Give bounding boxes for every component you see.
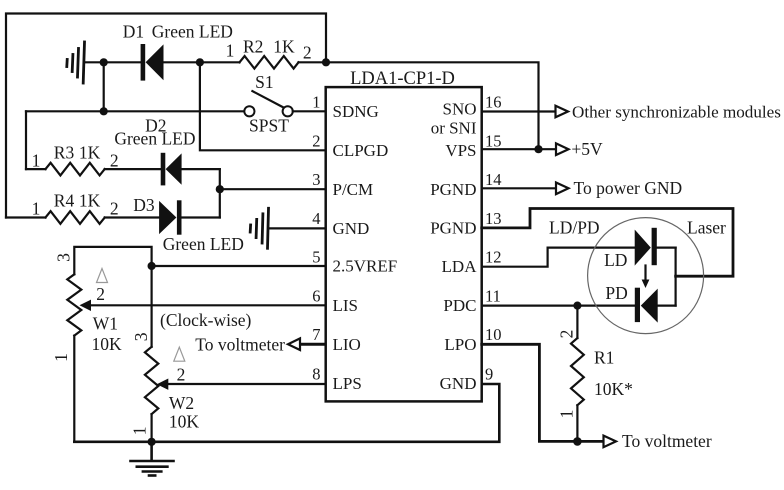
svg-text:GND: GND bbox=[440, 374, 477, 393]
node G (pot ground junction) bbox=[148, 438, 156, 446]
LIO arrow (to voltmeter, pin 7) bbox=[299, 343, 326, 346]
wire W2 wiper to pin 8 LPS bbox=[167, 383, 326, 385]
wire R2 to corner bbox=[299, 61, 327, 63]
resistor R3 bbox=[26, 168, 46, 170]
wire R4 to D3 bbox=[105, 216, 159, 218]
wire W1 top to column bbox=[74, 247, 151, 347]
svg-text:D1: D1 bbox=[123, 22, 144, 42]
svg-text:LDA1-CP1-D: LDA1-CP1-D bbox=[350, 69, 455, 89]
svg-text:Green LED: Green LED bbox=[152, 22, 233, 42]
W1 wiper arrow bbox=[80, 300, 92, 311]
svg-text:1: 1 bbox=[51, 353, 71, 362]
svg-text:CLPGD: CLPGD bbox=[333, 141, 389, 160]
svg-text:14: 14 bbox=[485, 170, 502, 189]
svg-text:To voltmeter: To voltmeter bbox=[622, 431, 712, 451]
svg-text:R4: R4 bbox=[54, 191, 75, 211]
svg-text:6: 6 bbox=[312, 286, 320, 305]
wire 2.5VREF to pot column bbox=[152, 265, 326, 267]
svg-text:R2: R2 bbox=[243, 37, 263, 57]
svg-text:1K: 1K bbox=[79, 191, 101, 211]
wire pin 10 LPO to voltmeter bbox=[482, 344, 605, 441]
laser package circle bbox=[588, 218, 704, 334]
wire pin 12 to LD anode bbox=[482, 248, 635, 267]
wire D3 to tie bbox=[182, 216, 220, 218]
svg-text:10K*: 10K* bbox=[594, 379, 633, 399]
LED D3 bbox=[159, 200, 181, 234]
svg-text:Green LED: Green LED bbox=[163, 234, 244, 254]
svg-text:4: 4 bbox=[312, 209, 320, 228]
wire pin 16 bbox=[482, 110, 555, 112]
svg-text:2: 2 bbox=[303, 42, 312, 62]
potentiometer W1 bbox=[67, 274, 81, 335]
svg-text:5: 5 bbox=[312, 248, 320, 267]
svg-text:LIO: LIO bbox=[333, 335, 361, 354]
arrow out 16 bbox=[556, 106, 569, 118]
IC U1 LDA1-CP1-D body bbox=[326, 87, 482, 401]
svg-text:R3: R3 bbox=[54, 142, 75, 162]
svg-text:+5V: +5V bbox=[571, 139, 603, 159]
node D (SDNG row junction) bbox=[100, 107, 108, 115]
svg-text:16: 16 bbox=[485, 93, 502, 112]
LED D1 bbox=[141, 44, 164, 81]
wire W1 wiper to pin 6 LIS bbox=[90, 304, 326, 306]
wire PD to common bbox=[658, 305, 676, 307]
node B (D1/R2/CLPGD junction) bbox=[196, 58, 204, 66]
svg-text:3: 3 bbox=[53, 253, 73, 262]
svg-text:1: 1 bbox=[32, 150, 41, 170]
wire S1 to pin 1 bbox=[293, 110, 326, 112]
wire LD cathode to common bbox=[657, 247, 676, 249]
node I (PDC / R1 junction) bbox=[573, 302, 581, 310]
wire SDNG row bbox=[26, 110, 244, 112]
ground G3 (bottom) bbox=[131, 442, 174, 476]
W2 wiper arrow bbox=[157, 379, 169, 390]
ground G2 (pin 4) bbox=[250, 208, 268, 248]
arrow out 14 bbox=[556, 183, 569, 195]
svg-text:2: 2 bbox=[110, 150, 119, 170]
wire D2/D3 vertical tie bbox=[219, 169, 221, 217]
svg-text:LD: LD bbox=[604, 250, 627, 270]
svg-text:2: 2 bbox=[96, 284, 105, 304]
node A (ground / D1 cathode junction) bbox=[100, 58, 108, 66]
wire bottom rail bbox=[74, 384, 499, 442]
svg-text:2: 2 bbox=[110, 199, 119, 219]
svg-text:Other synchronizable modules: Other synchronizable modules bbox=[572, 102, 781, 121]
wire D2 to node E column bbox=[182, 168, 220, 170]
node E (P/CM junction) bbox=[216, 185, 224, 193]
svg-text:S1: S1 bbox=[255, 72, 273, 92]
resistor R2 bbox=[240, 56, 299, 69]
svg-text:Green LED: Green LED bbox=[114, 128, 195, 148]
svg-text:1: 1 bbox=[32, 199, 41, 219]
svg-text:P/CM: P/CM bbox=[333, 180, 374, 199]
svg-text:Laser: Laser bbox=[687, 218, 726, 238]
svg-text:1: 1 bbox=[556, 410, 576, 419]
W2 triangle mark bbox=[174, 347, 185, 361]
svg-text:15: 15 bbox=[485, 131, 502, 150]
ground G1 (top left) bbox=[67, 42, 85, 83]
svg-text:D3: D3 bbox=[133, 195, 155, 215]
svg-text:2: 2 bbox=[177, 364, 186, 384]
light arrow LD to PD bbox=[644, 266, 646, 282]
svg-text:1: 1 bbox=[130, 427, 150, 436]
svg-text:2: 2 bbox=[312, 131, 320, 150]
svg-text:(Clock-wise): (Clock-wise) bbox=[160, 310, 252, 330]
svg-text:3: 3 bbox=[131, 332, 151, 341]
wire node A down bbox=[103, 62, 105, 111]
potentiometer W2 bbox=[145, 347, 158, 414]
svg-text:To voltmeter: To voltmeter bbox=[195, 334, 285, 354]
svg-text:1: 1 bbox=[226, 41, 235, 61]
laser diode LD bbox=[635, 228, 657, 266]
wire pin 14 bbox=[482, 187, 556, 189]
photodiode PD bbox=[635, 288, 658, 323]
switch S1 bbox=[244, 106, 254, 116]
resistor R4 bbox=[6, 216, 46, 218]
wire ground to node A bbox=[85, 61, 141, 63]
arrow out 15 bbox=[556, 143, 569, 155]
svg-text:10: 10 bbox=[485, 325, 502, 344]
svg-text:LIS: LIS bbox=[333, 296, 359, 315]
svg-text:LDA: LDA bbox=[442, 257, 478, 276]
svg-text:R1: R1 bbox=[594, 347, 614, 367]
svg-text:9: 9 bbox=[485, 365, 493, 384]
arrow out voltmeter bbox=[604, 436, 617, 448]
svg-text:7: 7 bbox=[312, 325, 320, 344]
node J (R1 / voltmeter junction) bbox=[573, 437, 582, 446]
wire R3 to D2 bbox=[105, 168, 161, 170]
wire W1 bottom bbox=[73, 336, 75, 442]
node F (VREF junction) bbox=[148, 262, 156, 270]
svg-text:LD/PD: LD/PD bbox=[549, 217, 600, 237]
svg-text:2.5VREF: 2.5VREF bbox=[333, 257, 398, 276]
svg-text:10K: 10K bbox=[169, 411, 200, 431]
svg-text:To power GND: To power GND bbox=[574, 178, 683, 198]
wiper direction marks bbox=[97, 269, 185, 362]
svg-text:1K: 1K bbox=[273, 37, 295, 57]
W1 triangle mark bbox=[97, 269, 108, 283]
svg-text:W2: W2 bbox=[169, 393, 194, 413]
svg-text:or SNI: or SNI bbox=[431, 118, 477, 137]
svg-text:3: 3 bbox=[312, 170, 320, 189]
wire laser common vertical bbox=[674, 248, 676, 306]
svg-text:VPS: VPS bbox=[445, 141, 476, 160]
svg-text:SPST: SPST bbox=[249, 115, 289, 135]
wire pin 13 to laser common bbox=[482, 209, 733, 277]
svg-text:2: 2 bbox=[556, 330, 576, 339]
svg-text:11: 11 bbox=[485, 286, 501, 305]
svg-text:PD: PD bbox=[605, 283, 627, 303]
svg-text:PGND: PGND bbox=[430, 180, 476, 199]
resistor R1 bbox=[576, 306, 578, 338]
svg-text:PGND: PGND bbox=[430, 219, 476, 238]
wire pin 15 bbox=[482, 148, 556, 150]
svg-text:1: 1 bbox=[312, 93, 320, 112]
LED D2 bbox=[161, 153, 182, 186]
svg-text:W1: W1 bbox=[93, 313, 118, 333]
wire node B down to CLPGD bbox=[200, 62, 326, 150]
wire node C to +5V rail bbox=[326, 62, 539, 149]
wire D1 to R2 bbox=[164, 61, 240, 63]
svg-text:13: 13 bbox=[485, 209, 502, 228]
svg-text:8: 8 bbox=[312, 365, 320, 384]
svg-text:GND: GND bbox=[333, 219, 370, 238]
wire down to R3 bbox=[25, 111, 27, 169]
wire pin 11 PDC to PD bbox=[482, 305, 635, 307]
svg-text:1K: 1K bbox=[79, 142, 101, 162]
node C (R2 / frame / +5V junction) bbox=[322, 58, 330, 66]
IC pin labels bbox=[333, 99, 478, 393]
svg-text:10K: 10K bbox=[92, 334, 123, 354]
wire node E to pin 3 bbox=[220, 188, 326, 190]
node H (+5V junction) bbox=[534, 145, 542, 153]
svg-text:SNO: SNO bbox=[442, 99, 476, 118]
pin numbers bbox=[312, 93, 501, 384]
svg-text:SDNG: SDNG bbox=[333, 102, 379, 121]
svg-text:LPS: LPS bbox=[333, 374, 362, 393]
svg-text:12: 12 bbox=[485, 248, 502, 267]
wire W2 bottom bbox=[151, 414, 153, 442]
svg-text:PDC: PDC bbox=[443, 296, 476, 315]
svg-text:LPO: LPO bbox=[444, 335, 476, 354]
wire outer frame left/top bbox=[6, 14, 326, 218]
